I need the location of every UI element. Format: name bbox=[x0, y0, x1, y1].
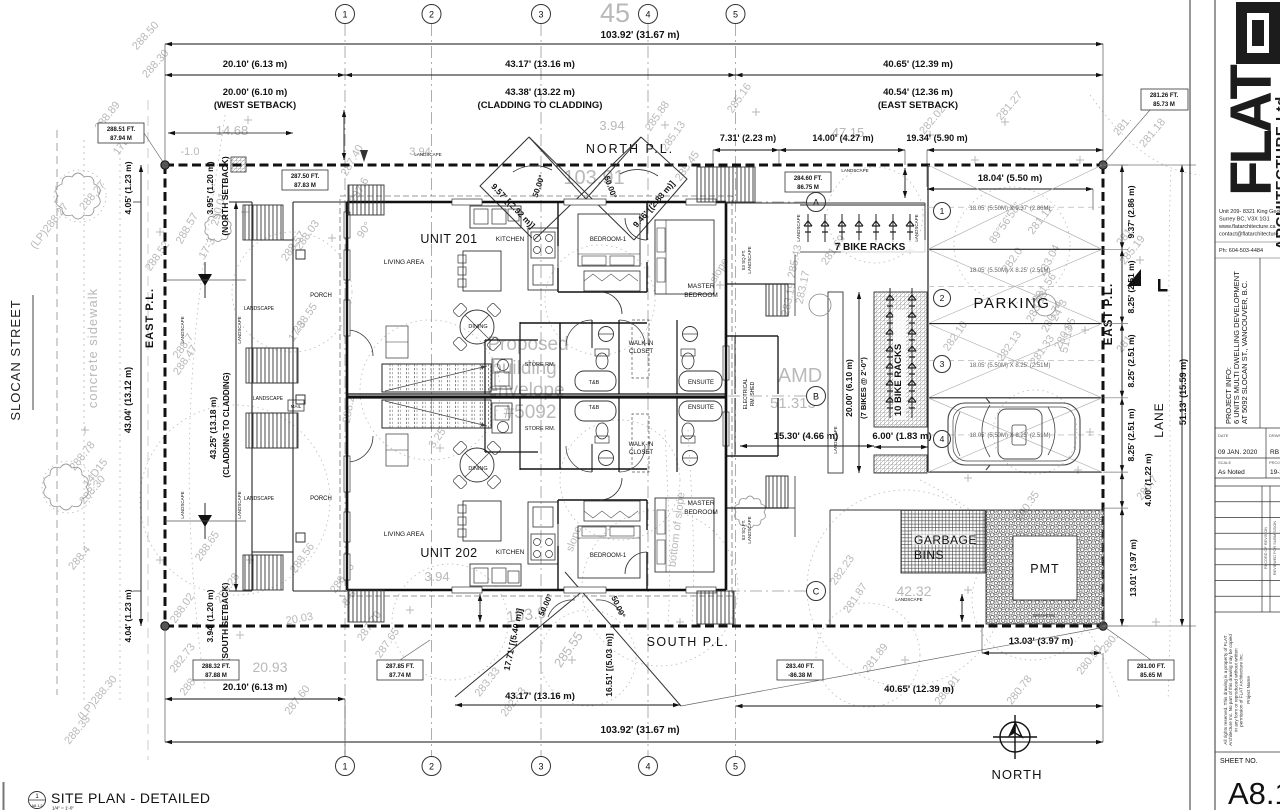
svg-text:287.50 FT.: 287.50 FT. bbox=[291, 174, 320, 180]
svg-text:3: 3 bbox=[940, 359, 945, 369]
entry stairs north-east bbox=[697, 167, 755, 202]
svg-text:-1.0: -1.0 bbox=[181, 146, 200, 158]
toilets bbox=[596, 353, 608, 369]
svg-text:19-25: 19-25 bbox=[1270, 469, 1280, 476]
svg-text:18.05' (5.50M) X 8.25' (2.51M): 18.05' (5.50M) X 8.25' (2.51M) bbox=[970, 433, 1051, 439]
grid bubbles top bbox=[336, 5, 355, 24]
svg-text:CLOSET: CLOSET bbox=[629, 349, 653, 355]
svg-text:13.01' (3.97 m): 13.01' (3.97 m) bbox=[1128, 539, 1138, 597]
svg-text:86.75 M: 86.75 M bbox=[797, 185, 819, 191]
street tree south bbox=[44, 464, 89, 510]
svg-text:LIVING AREA: LIVING AREA bbox=[384, 259, 425, 266]
svg-text:20.00' (6.10 m): 20.00' (6.10 m) bbox=[844, 359, 854, 417]
car bbox=[948, 398, 1080, 470]
stall number bubbles bbox=[934, 203, 951, 220]
svg-text:Surrey BC, V3X 1G1: Surrey BC, V3X 1G1 bbox=[1219, 217, 1270, 223]
svg-text:#5092: #5092 bbox=[504, 402, 557, 423]
svg-text:(CLADDING TO CLADDING): (CLADDING TO CLADDING) bbox=[478, 100, 603, 111]
interior wall kitchen/bed bbox=[557, 202, 559, 246]
svg-text:RM. SHED: RM. SHED bbox=[750, 381, 756, 406]
svg-text:LANDSCAPE: LANDSCAPE bbox=[796, 214, 801, 241]
svg-text:2: 2 bbox=[429, 10, 434, 20]
svg-text:A8.1.2: A8.1.2 bbox=[32, 804, 43, 808]
window right wall bbox=[723, 346, 729, 380]
svg-text:B/PAVERS: B/PAVERS bbox=[1033, 613, 1055, 618]
svg-text:18.04' (5.50 m): 18.04' (5.50 m) bbox=[978, 173, 1043, 184]
svg-text:MAIL: MAIL bbox=[291, 404, 302, 409]
svg-text:LANE: LANE bbox=[1152, 402, 1166, 437]
bathroom core walls bbox=[618, 320, 620, 394]
svg-text:EAST P.L.: EAST P.L. bbox=[144, 288, 156, 348]
property line north bbox=[165, 164, 1103, 167]
svg-text:(7 BIKES @ 2'-0"): (7 BIKES @ 2'-0") bbox=[859, 357, 868, 419]
svg-text:20.00' (6.10 m): 20.00' (6.10 m) bbox=[223, 87, 288, 98]
svg-text:SCALE: SCALE bbox=[1218, 460, 1231, 465]
svg-text:4.04' (1.23 m): 4.04' (1.23 m) bbox=[123, 589, 133, 642]
entry vestibule bbox=[386, 326, 408, 358]
svg-text:40.54' (12.36 m): 40.54' (12.36 m) bbox=[883, 87, 953, 98]
svg-text:8.25' (2.51 m): 8.25' (2.51 m) bbox=[1126, 334, 1136, 387]
right side annex half bbox=[794, 255, 796, 316]
envelope X north bbox=[480, 137, 687, 240]
parking stall lines bbox=[927, 165, 929, 472]
svg-text:3: 3 bbox=[538, 10, 543, 20]
svg-text:LANDSCAPE: LANDSCAPE bbox=[244, 496, 275, 502]
svg-text:LANDSCAPE: LANDSCAPE bbox=[253, 396, 284, 402]
svg-text:87.83 M: 87.83 M bbox=[294, 183, 316, 189]
svg-text:SHEET NO.: SHEET NO. bbox=[1220, 758, 1258, 765]
bedroom1 walls bbox=[558, 291, 647, 293]
revision table bbox=[1215, 485, 1280, 487]
svg-text:AMD: AMD bbox=[778, 365, 822, 387]
svg-text:85.65 M: 85.65 M bbox=[1140, 673, 1162, 679]
svg-text:Project Name: Project Name bbox=[1246, 676, 1251, 704]
grid bubbles bottom bbox=[336, 757, 355, 776]
svg-text:1: 1 bbox=[342, 762, 347, 772]
svg-text:BEDROOM: BEDROOM bbox=[684, 292, 718, 299]
front stairs bbox=[243, 205, 283, 240]
north arrow bbox=[993, 715, 1037, 759]
svg-text:ENSUITE: ENSUITE bbox=[688, 380, 714, 386]
door arcs bath core bbox=[566, 320, 592, 346]
svg-text:DINING: DINING bbox=[468, 324, 487, 330]
svg-text:UNIT 201: UNIT 201 bbox=[420, 232, 477, 246]
svg-text:18.05' (5.50M) X 8.25' (2.51M): 18.05' (5.50M) X 8.25' (2.51M) bbox=[970, 268, 1051, 274]
svg-text:53 SQ.FT.: 53 SQ.FT. bbox=[741, 520, 746, 540]
store room bbox=[484, 340, 486, 394]
svg-text:40.65' (12.39 m): 40.65' (12.39 m) bbox=[884, 684, 954, 695]
svg-text:MASTER: MASTER bbox=[687, 283, 714, 290]
benchmark box 284.60 bbox=[785, 172, 831, 192]
stairs interior (upper flight) bbox=[382, 364, 491, 392]
7 bike racks bbox=[726, 202, 925, 204]
svg-text:5: 5 bbox=[733, 762, 738, 772]
svg-text:T&B: T&B bbox=[589, 405, 600, 411]
benchmark box 287.50 bbox=[282, 170, 328, 190]
svg-text:SOUTH P.L.: SOUTH P.L. bbox=[647, 635, 730, 649]
svg-text:13.03' (3.97 m): 13.03' (3.97 m) bbox=[1009, 636, 1074, 647]
svg-text:LANDSCAPE: LANDSCAPE bbox=[841, 168, 868, 173]
svg-text:51.13' (15.59 m): 51.13' (15.59 m) bbox=[1178, 359, 1188, 425]
svg-text:www.flatarchitecture.ca: www.flatarchitecture.ca bbox=[1218, 224, 1276, 230]
FLAT logo mark bbox=[1236, 2, 1280, 64]
svg-text:PMT: PMT bbox=[1030, 562, 1059, 576]
north setback arrow bbox=[904, 168, 906, 198]
yard tree bbox=[735, 496, 766, 528]
svg-text:5: 5 bbox=[733, 10, 738, 20]
svg-text:1: 1 bbox=[342, 10, 347, 20]
svg-text:43.25' (13.18 m): 43.25' (13.18 m) bbox=[208, 397, 218, 460]
sinks bbox=[599, 327, 614, 342]
svg-text:87.94 M: 87.94 M bbox=[110, 136, 132, 142]
svg-text:LANDSCAPE: LANDSCAPE bbox=[180, 491, 185, 518]
svg-text:LANDSCAPE: LANDSCAPE bbox=[833, 426, 838, 453]
svg-text:43.04' (13.12 m): 43.04' (13.12 m) bbox=[123, 367, 133, 433]
svg-text:7.31' (2.23 m): 7.31' (2.23 m) bbox=[720, 133, 776, 143]
mail box bbox=[288, 400, 304, 411]
svg-text:287.85 FT.: 287.85 FT. bbox=[386, 664, 415, 670]
svg-text:KITCHEN: KITCHEN bbox=[496, 236, 525, 243]
svg-text:09 JAN. 2020: 09 JAN. 2020 bbox=[1218, 449, 1258, 456]
svg-text:LANDSCAPE: LANDSCAPE bbox=[244, 306, 275, 312]
svg-text:(NORTH SETBACK): (NORTH SETBACK) bbox=[220, 156, 230, 235]
svg-text:4.05' (1.23 m): 4.05' (1.23 m) bbox=[123, 161, 133, 214]
svg-text:SITE PLAN - DETAILED: SITE PLAN - DETAILED bbox=[51, 790, 210, 806]
svg-text:(CLADDING TO CLADDING): (CLADDING TO CLADDING) bbox=[222, 372, 231, 478]
east PL marker triangle bbox=[1127, 269, 1141, 286]
PL corner monuments bbox=[161, 161, 169, 169]
building canopy dashed bbox=[340, 196, 732, 596]
svg-text:KITCHEN: KITCHEN bbox=[496, 549, 525, 556]
svg-text:3: 3 bbox=[538, 762, 543, 772]
closet dashed bbox=[632, 320, 649, 378]
svg-text:STORE RM.: STORE RM. bbox=[525, 426, 556, 432]
svg-text:BEDROOM: BEDROOM bbox=[684, 509, 718, 516]
svg-text:contact@flatarchitecture.ca: contact@flatarchitecture.ca bbox=[1219, 232, 1280, 238]
svg-text:18.05' (5.50M) X 8.25' (2.51M): 18.05' (5.50M) X 8.25' (2.51M) bbox=[970, 363, 1051, 369]
property line east bbox=[1102, 165, 1105, 626]
south setback arrow bbox=[479, 594, 481, 622]
svg-text:DINING: DINING bbox=[468, 466, 487, 472]
svg-text:87.88 M: 87.88 M bbox=[205, 673, 227, 679]
street tree north bbox=[56, 173, 101, 219]
svg-text:C: C bbox=[813, 587, 820, 597]
svg-text:40.65' (12.39 m): 40.65' (12.39 m) bbox=[883, 59, 953, 70]
svg-text:AT 5092 SLOCAN ST., VANCOUVER,: AT 5092 SLOCAN ST., VANCOUVER, B.C. bbox=[1240, 281, 1249, 424]
svg-text:LANDSCAPE: LANDSCAPE bbox=[747, 516, 752, 543]
svg-text:6.00' (1.83 m): 6.00' (1.83 m) bbox=[872, 431, 931, 442]
west setback dim line bbox=[168, 132, 293, 134]
rear yard outline bbox=[830, 509, 901, 511]
svg-text:20.10' (6.13 m): 20.10' (6.13 m) bbox=[223, 59, 288, 70]
svg-text:RECORD OF REVISION: RECORD OF REVISION bbox=[1264, 527, 1268, 569]
svg-text:284.60 FT.: 284.60 FT. bbox=[794, 176, 823, 182]
svg-text:3.95' (1.20 m): 3.95' (1.20 m) bbox=[205, 161, 215, 214]
svg-text:288.32 FT.: 288.32 FT. bbox=[202, 664, 231, 670]
svg-text:16.51' [(5.03 m)]: 16.51' [(5.03 m)] bbox=[604, 633, 614, 697]
svg-text:ELECTRICAL: ELECTRICAL bbox=[743, 378, 749, 409]
svg-text:43.38' (13.22 m): 43.38' (13.22 m) bbox=[505, 87, 575, 98]
svg-text:As Noted: As Noted bbox=[1218, 469, 1245, 476]
svg-text:14.00' (4.27 m): 14.00' (4.27 m) bbox=[812, 133, 873, 143]
svg-text:103.92' (31.67 m): 103.92' (31.67 m) bbox=[600, 725, 679, 736]
svg-text:1/4" = 1'-0": 1/4" = 1'-0" bbox=[52, 806, 74, 810]
svg-text:8.25' (2.51 m): 8.25' (2.51 m) bbox=[1126, 408, 1136, 461]
svg-text:(SOUTH SETBACK): (SOUTH SETBACK) bbox=[220, 582, 230, 661]
title block frame bbox=[1189, 0, 1191, 810]
svg-text:14.68: 14.68 bbox=[216, 123, 249, 138]
svg-text:281.00 FT.: 281.00 FT. bbox=[1137, 664, 1166, 670]
svg-text:4: 4 bbox=[940, 434, 945, 444]
svg-text:2: 2 bbox=[940, 293, 945, 303]
svg-text:-86.38 M: -86.38 M bbox=[788, 673, 812, 679]
survey benchmark triangles bbox=[198, 274, 212, 286]
svg-text:8.25' (2.51 m): 8.25' (2.51 m) bbox=[1126, 260, 1136, 313]
svg-text:15.30' (4.66 m): 15.30' (4.66 m) bbox=[774, 431, 839, 442]
svg-text:B: B bbox=[813, 392, 819, 402]
closet b1 bbox=[584, 271, 640, 291]
street lines bbox=[32, 295, 34, 410]
tub ensuite bbox=[679, 371, 722, 391]
svg-text:1: 1 bbox=[940, 206, 945, 216]
tub T&B bbox=[575, 371, 616, 391]
svg-text:87.74 M: 87.74 M bbox=[389, 673, 411, 679]
svg-text:BEDROOM-1: BEDROOM-1 bbox=[590, 237, 627, 243]
master bed bbox=[655, 220, 714, 294]
svg-text:43.17' (13.16 m): 43.17' (13.16 m) bbox=[505, 691, 575, 702]
window frames top wall bbox=[452, 199, 482, 205]
svg-text:LIVING AREA: LIVING AREA bbox=[384, 531, 425, 538]
grid lines A B C bbox=[728, 201, 806, 203]
laundry beside stair bbox=[492, 359, 512, 389]
svg-text:LANDSCAPE: LANDSCAPE bbox=[747, 246, 752, 273]
drawing title bbox=[29, 792, 46, 809]
svg-text:LANDSCAPE: LANDSCAPE bbox=[895, 597, 922, 602]
svg-text:18.05' (5.50M) X 9.37' (2.86M): 18.05' (5.50M) X 9.37' (2.86M) bbox=[970, 206, 1051, 212]
svg-text:STORE RM.: STORE RM. bbox=[525, 362, 556, 368]
property line west bbox=[164, 165, 167, 626]
svg-text:53 SQ.FT.: 53 SQ.FT. bbox=[741, 250, 746, 270]
svg-text:LANDSCAPE: LANDSCAPE bbox=[237, 491, 242, 518]
svg-text:PROJ: PROJ bbox=[1269, 460, 1280, 465]
svg-text:2: 2 bbox=[429, 762, 434, 772]
svg-text:PORCH: PORCH bbox=[310, 496, 332, 502]
svg-text:REVIEWED FOR SUBMISSION: REVIEWED FOR SUBMISSION bbox=[1273, 521, 1277, 575]
entry stairs south-west bbox=[348, 590, 384, 622]
svg-text:RB: RB bbox=[1270, 449, 1279, 456]
svg-text:DATE: DATE bbox=[1218, 433, 1229, 438]
dining table bbox=[460, 310, 494, 344]
svg-text:CLOSET: CLOSET bbox=[629, 450, 653, 456]
svg-text:3.94: 3.94 bbox=[599, 118, 624, 133]
angle arcs north bbox=[513, 166, 552, 172]
svg-text:permission of FLAT Architectur: permission of FLAT Architecture Inc. bbox=[1239, 653, 1244, 727]
stall X marks bbox=[928, 165, 1102, 249]
svg-text:FLAT: FLAT bbox=[1219, 65, 1280, 196]
right dim line bbox=[1121, 165, 1123, 249]
svg-text:10 BIKE RACKS: 10 BIKE RACKS bbox=[893, 344, 904, 416]
svg-text:concrete sidewalk: concrete sidewalk bbox=[85, 288, 100, 408]
porch columns bbox=[296, 250, 305, 259]
svg-text:3.94' (1.20 m): 3.94' (1.20 m) bbox=[205, 589, 215, 642]
svg-text:7 BIKE RACKS: 7 BIKE RACKS bbox=[835, 242, 906, 253]
svg-text:45: 45 bbox=[600, 0, 630, 28]
balcony door arc bedroom bbox=[600, 292, 622, 314]
envelope X south bbox=[455, 590, 584, 697]
svg-text:4: 4 bbox=[645, 762, 650, 772]
svg-text:SLOCAN STREET: SLOCAN STREET bbox=[8, 299, 23, 420]
entry door arc bbox=[347, 330, 373, 356]
porch band walls bbox=[251, 202, 253, 591]
property line south bbox=[165, 625, 1103, 628]
svg-text:EAST P.L.: EAST P.L. bbox=[1103, 283, 1115, 345]
svg-text:20.10' (6.13 m): 20.10' (6.13 m) bbox=[223, 682, 288, 693]
svg-text:WALK-IN: WALK-IN bbox=[629, 442, 654, 448]
svg-text:LANDSCAPE: LANDSCAPE bbox=[414, 152, 441, 157]
svg-text:(WEST SETBACK): (WEST SETBACK) bbox=[214, 100, 296, 111]
svg-text:20.93: 20.93 bbox=[252, 659, 287, 675]
building outline reinforce bbox=[346, 202, 348, 590]
svg-text:UNIT 202: UNIT 202 bbox=[420, 546, 477, 560]
svg-text:19.34' (5.90 m): 19.34' (5.90 m) bbox=[906, 133, 967, 143]
grid lines 1-5 bbox=[344, 24, 346, 756]
faint 14.68 already; small utility square bbox=[231, 157, 246, 172]
svg-text:GARBAGE: GARBAGE bbox=[914, 533, 977, 547]
svg-text:PARKING: PARKING bbox=[974, 295, 1051, 312]
svg-text:MASTER: MASTER bbox=[687, 500, 714, 507]
svg-text:BEDROOM-1: BEDROOM-1 bbox=[590, 553, 627, 559]
svg-text:DRWN: DRWN bbox=[1269, 433, 1280, 438]
svg-text:LANDSCAPE: LANDSCAPE bbox=[180, 316, 185, 343]
island bbox=[463, 251, 501, 291]
benchmark boxes south bbox=[193, 660, 239, 680]
svg-text:(EAST SETBACK): (EAST SETBACK) bbox=[878, 100, 958, 111]
entry stairs north-west bbox=[348, 185, 384, 215]
svg-text:LANDSCAPE: LANDSCAPE bbox=[237, 316, 242, 343]
10 bike racks hatch bbox=[874, 292, 927, 427]
svg-text:4: 4 bbox=[645, 10, 650, 20]
entry stairs south-east bbox=[697, 591, 734, 624]
svg-text:LANDSCAPE: LANDSCAPE bbox=[914, 214, 919, 241]
PMT pad bbox=[986, 510, 1104, 624]
svg-text:9.37' (2.86 m): 9.37' (2.86 m) bbox=[1126, 185, 1136, 238]
landscape strip bbox=[828, 292, 843, 473]
svg-text:43.17' (13.16 m): 43.17' (13.16 m) bbox=[505, 59, 575, 70]
stair hall wall bbox=[519, 322, 521, 394]
benchmark box 281.26 bbox=[1141, 89, 1188, 110]
svg-text:PORCH: PORCH bbox=[310, 293, 332, 299]
svg-text:NORTH: NORTH bbox=[992, 767, 1043, 782]
bed bedroom1 bbox=[578, 214, 640, 266]
corridor wall bbox=[520, 322, 647, 324]
svg-text:283.40 FT.: 283.40 FT. bbox=[786, 664, 815, 670]
kitchen counter bbox=[470, 206, 521, 228]
party wall core bbox=[347, 396, 726, 398]
svg-text:3.94: 3.94 bbox=[424, 569, 449, 584]
svg-text:288.51 FT.: 288.51 FT. bbox=[107, 127, 136, 133]
unit mirrored shapes bbox=[344, 199, 795, 396]
svg-text:281.26 FT.: 281.26 FT. bbox=[1150, 93, 1179, 99]
svg-text:A: A bbox=[813, 198, 819, 208]
svg-text:Ph: 604-503-4484: Ph: 604-503-4484 bbox=[1219, 248, 1263, 254]
benchmark box 288.51 bbox=[98, 123, 144, 143]
svg-text:Unit 209- 8321 King George Blv: Unit 209- 8321 King George Blvd. bbox=[1219, 209, 1280, 215]
svg-text:4.00' (1.22 m): 4.00' (1.22 m) bbox=[1143, 453, 1153, 506]
svg-text:103.92' (31.67 m): 103.92' (31.67 m) bbox=[600, 30, 679, 41]
svg-text:WALK-IN: WALK-IN bbox=[629, 341, 654, 347]
garbage bins bbox=[901, 510, 985, 573]
svg-text:ENSUITE: ENSUITE bbox=[688, 405, 714, 411]
window sills left wall bbox=[344, 212, 350, 238]
svg-text:BINS: BINS bbox=[914, 548, 944, 562]
svg-text:A8.1: A8.1 bbox=[1228, 776, 1280, 810]
svg-text:T&B: T&B bbox=[589, 380, 600, 386]
fridge bbox=[533, 265, 553, 285]
yard tree 2 bbox=[205, 215, 231, 242]
svg-text:85.73 M: 85.73 M bbox=[1153, 102, 1175, 108]
